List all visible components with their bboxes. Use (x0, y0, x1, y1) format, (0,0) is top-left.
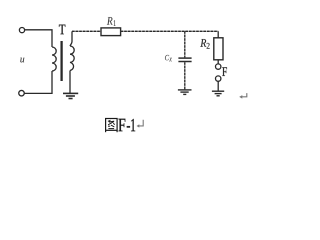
terminal (F upper) (216, 64, 221, 69)
transformer label T (59, 25, 65, 35)
label R2 subscript 2 (207, 43, 210, 49)
transformer T core (60, 41, 62, 81)
resistor R1 (101, 28, 121, 36)
wire (bus: secondary corner to R1, dashed) (72, 30, 101, 32)
label R2 letter R (200, 39, 206, 47)
wire (secondary top to bus corner) (70, 31, 72, 46)
transformer T secondary winding (70, 46, 74, 71)
wire (bottom-left terminal to transformer primary bottom) (24, 71, 52, 93)
caption digit 1 (131, 119, 135, 131)
wire (R2 bottom to upper F terminal) (217, 60, 219, 64)
wire (Cx bottom plate to ground, dashed) (184, 62, 186, 89)
paragraph return mark (right margin) (239, 93, 247, 99)
wire (lower F terminal to ground) (217, 81, 219, 91)
caption character 图 (drawn strokes) (106, 119, 118, 133)
label R1 subscript 1 (114, 20, 116, 25)
ground (below Cx) (178, 90, 192, 95)
wire (bus: R1 to R2 corner, dashed) (121, 30, 219, 32)
paragraph return mark (after caption) (137, 120, 144, 128)
caption letter F (118, 119, 125, 131)
capacitor Cx (178, 58, 191, 61)
label R1 letter R (107, 17, 113, 24)
caption dash (127, 126, 130, 127)
resistor R2 (214, 38, 223, 60)
wire (secondary bottom down to ground) (69, 71, 71, 94)
net label F (222, 67, 227, 76)
terminal (input top-left) (19, 28, 24, 33)
terminal (input bottom-left) (19, 90, 25, 96)
ground (below F terminal) (212, 91, 224, 96)
label Cx letter C (165, 55, 169, 60)
wire (top-left terminal to transformer primary top) (25, 30, 52, 47)
source label u (20, 58, 24, 63)
wire (bus corner down to R2 top) (217, 31, 219, 38)
label Cx subscript x (169, 58, 171, 62)
ground (below transformer secondary) (63, 93, 78, 98)
terminal (F lower) (216, 76, 221, 81)
wire (Cx branch from bus junction, dashed) (184, 31, 186, 57)
transformer T primary winding (52, 47, 56, 71)
